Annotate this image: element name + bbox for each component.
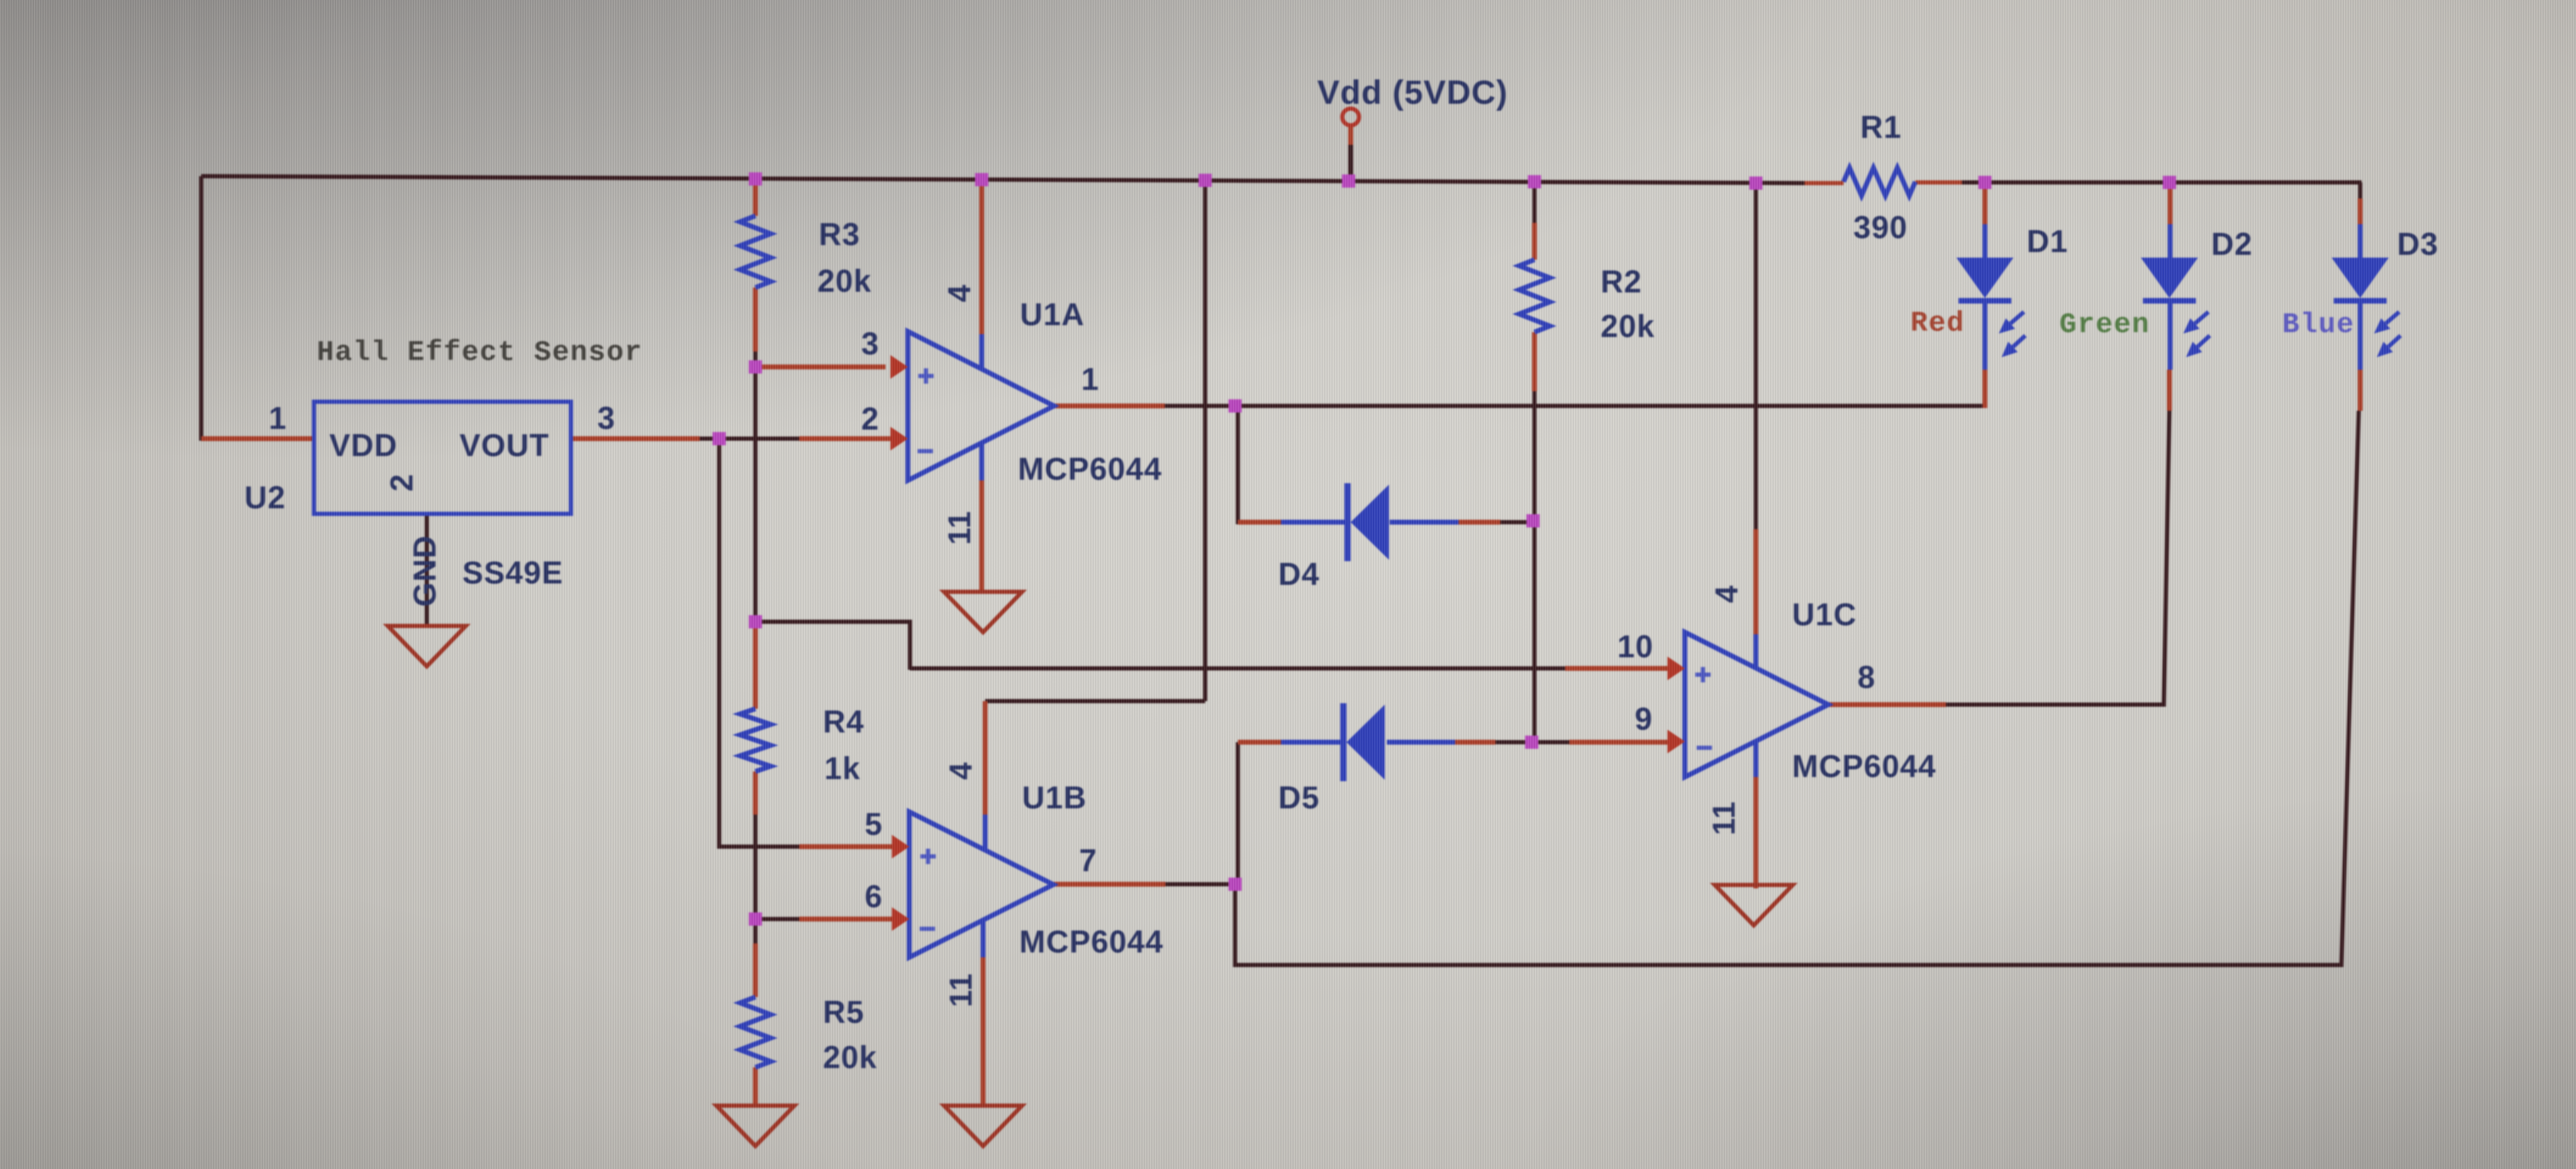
svg-text:Red: Red (1910, 308, 1965, 340)
svg-text:4: 4 (1709, 585, 1745, 603)
svg-text:11: 11 (1706, 801, 1742, 835)
svg-text:1k: 1k (824, 751, 861, 786)
svg-text:SS49E: SS49E (462, 555, 563, 590)
svg-text:390: 390 (1853, 210, 1908, 245)
svg-text:10: 10 (1617, 629, 1654, 664)
svg-text:1: 1 (1081, 361, 1099, 397)
svg-text:D4: D4 (1278, 556, 1320, 592)
svg-text:D3: D3 (2397, 226, 2439, 262)
svg-text:VOUT: VOUT (460, 427, 549, 463)
svg-text:R2: R2 (1601, 264, 1642, 299)
svg-text:R1: R1 (1860, 109, 1902, 145)
svg-text:R3: R3 (819, 217, 861, 252)
svg-text:D2: D2 (2211, 226, 2253, 262)
svg-text:Hall Effect Sensor: Hall Effect Sensor (317, 337, 643, 369)
svg-text:Blue: Blue (2282, 309, 2355, 341)
svg-text:U1C: U1C (1792, 597, 1857, 632)
svg-text:Vdd (5VDC): Vdd (5VDC) (1317, 74, 1508, 111)
svg-text:2: 2 (384, 473, 420, 492)
svg-text:MCP6044: MCP6044 (1019, 924, 1163, 959)
svg-text:11: 11 (943, 973, 979, 1007)
svg-text:U2: U2 (244, 480, 286, 515)
svg-text:R5: R5 (823, 994, 865, 1030)
svg-text:D5: D5 (1278, 780, 1320, 815)
svg-text:20k: 20k (817, 263, 872, 299)
svg-text:8: 8 (1858, 659, 1876, 695)
svg-text:1: 1 (269, 400, 287, 436)
svg-text:MCP6044: MCP6044 (1792, 748, 1936, 784)
svg-text:D1: D1 (2027, 223, 2068, 259)
svg-text:9: 9 (1635, 701, 1653, 737)
svg-text:5: 5 (865, 806, 883, 842)
svg-text:4: 4 (942, 284, 977, 302)
svg-text:VDD: VDD (329, 427, 398, 463)
svg-text:7: 7 (1079, 842, 1097, 878)
svg-text:3: 3 (861, 326, 879, 361)
svg-text:MCP6044: MCP6044 (1018, 451, 1162, 487)
svg-text:11: 11 (942, 510, 977, 545)
svg-text:Green: Green (2059, 309, 2150, 341)
svg-text:4: 4 (943, 762, 979, 780)
svg-text:6: 6 (865, 879, 883, 914)
svg-text:U1B: U1B (1022, 780, 1087, 815)
svg-text:20k: 20k (823, 1039, 877, 1075)
svg-text:20k: 20k (1601, 308, 1655, 344)
svg-text:U1A: U1A (1020, 297, 1085, 332)
svg-text:GND: GND (407, 535, 443, 607)
svg-text:3: 3 (597, 400, 615, 436)
svg-text:2: 2 (861, 401, 879, 437)
svg-text:R4: R4 (823, 704, 865, 739)
